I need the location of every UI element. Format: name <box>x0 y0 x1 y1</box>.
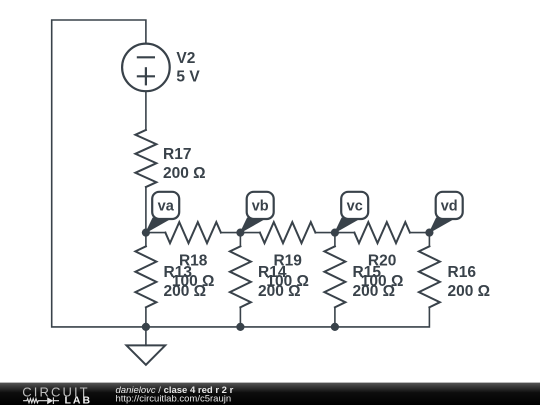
svg-text:R20: R20 <box>368 253 396 270</box>
svg-text:200 Ω: 200 Ω <box>448 283 491 300</box>
svg-text:vb: vb <box>252 199 269 215</box>
svg-text:R19: R19 <box>273 253 302 270</box>
svg-text:LAB: LAB <box>65 394 93 405</box>
svg-text:R16: R16 <box>448 264 477 281</box>
svg-text:100 Ω: 100 Ω <box>172 273 215 290</box>
svg-text:va: va <box>158 199 175 215</box>
svg-text:R17: R17 <box>163 146 191 163</box>
svg-text:100 Ω: 100 Ω <box>266 273 309 290</box>
svg-text:200 Ω: 200 Ω <box>163 165 206 182</box>
svg-text:5 V: 5 V <box>176 69 200 86</box>
svg-text:vd: vd <box>441 199 458 215</box>
svg-text:R18: R18 <box>179 253 208 270</box>
svg-text:100 Ω: 100 Ω <box>361 273 404 290</box>
svg-text:http://circuitlab.com/c5raujn: http://circuitlab.com/c5raujn <box>116 394 232 405</box>
svg-text:V2: V2 <box>176 50 195 67</box>
svg-text:vc: vc <box>347 199 363 215</box>
